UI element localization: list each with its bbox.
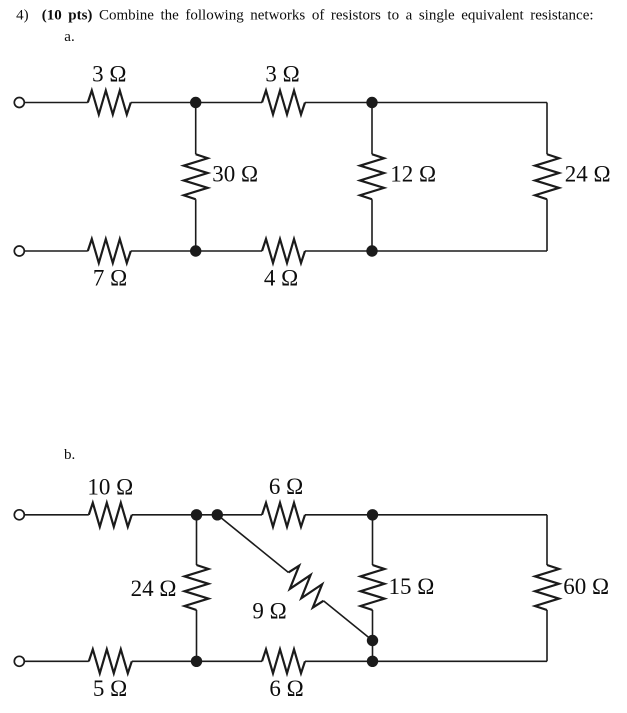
svg-text:6 Ω: 6 Ω (269, 676, 303, 701)
svg-text:9 Ω: 9 Ω (252, 599, 286, 624)
svg-text:12 Ω: 12 Ω (390, 162, 436, 187)
svg-text:15 Ω: 15 Ω (389, 574, 435, 599)
svg-text:30 Ω: 30 Ω (212, 162, 258, 187)
svg-text:4 Ω: 4 Ω (264, 266, 298, 291)
svg-text:3 Ω: 3 Ω (92, 62, 126, 87)
svg-text:4) (10 pts) Combine the follo: 4) (10 pts) Combine the following networ… (16, 8, 593, 24)
svg-text:3 Ω: 3 Ω (265, 62, 299, 87)
svg-text:5 Ω: 5 Ω (93, 676, 127, 701)
svg-text:60 Ω: 60 Ω (563, 574, 609, 599)
svg-text:b.: b. (64, 447, 75, 463)
svg-text:a.: a. (64, 29, 74, 45)
svg-text:6 Ω: 6 Ω (269, 474, 303, 499)
svg-text:7 Ω: 7 Ω (93, 266, 127, 291)
svg-text:24 Ω: 24 Ω (131, 576, 177, 601)
svg-text:24 Ω: 24 Ω (565, 162, 611, 187)
svg-text:10 Ω: 10 Ω (87, 475, 133, 500)
